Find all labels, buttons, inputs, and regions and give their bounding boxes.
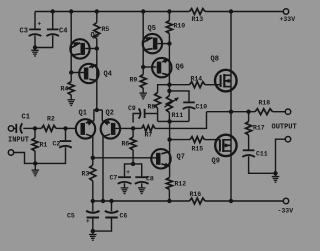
wire C6 top leg bbox=[111, 201, 113, 211]
wire Q5 line from rail bbox=[142, 12, 144, 75]
wire Q3 emitter diagonal bbox=[71, 43, 80, 48]
transistor Q7 bbox=[151, 149, 170, 168]
svg-text:C9: C9 bbox=[128, 105, 136, 112]
wire Q1 emitter up bbox=[94, 110, 102, 121]
label Q9 bbox=[212, 158, 220, 166]
resistor R1 bbox=[32, 128, 38, 163]
wire -33V rail left segment bbox=[93, 200, 190, 202]
svg-text:-33V: -33V bbox=[278, 208, 294, 215]
svg-text:C2: C2 bbox=[53, 141, 61, 148]
svg-text:R11: R11 bbox=[172, 112, 184, 119]
label Q4 bbox=[104, 71, 112, 79]
svg-text:R2: R2 bbox=[47, 116, 55, 123]
svg-text:C5: C5 bbox=[67, 213, 75, 220]
junction C5 C6 ground bbox=[91, 229, 95, 233]
label C5 bbox=[67, 213, 75, 220]
wire C8 to ground bbox=[141, 183, 143, 187]
svg-text:Q6: Q6 bbox=[176, 64, 184, 72]
wire Q6 collector diagonal bbox=[162, 73, 169, 75]
svg-text:C1: C1 bbox=[22, 114, 30, 122]
arrow Q2 emitter bbox=[103, 121, 110, 126]
wire C4 bottom leg bbox=[35, 35, 53, 47]
label C5 plus bbox=[86, 218, 90, 225]
wire C7 to ground bbox=[124, 183, 126, 187]
wire C7 C8 top bbox=[125, 164, 142, 177]
terminal input return bbox=[8, 150, 13, 155]
ground below C8 bbox=[138, 188, 146, 194]
svg-text:R3: R3 bbox=[82, 171, 90, 178]
wire R17 top leg bbox=[248, 112, 250, 122]
junction R17 node bbox=[246, 110, 250, 114]
wire C3 bottom leg bbox=[34, 35, 36, 47]
label C9 bbox=[128, 105, 136, 112]
junction Q4 base bbox=[69, 70, 73, 74]
label C11 bbox=[256, 151, 268, 158]
transistor Q9 mosfet bbox=[215, 135, 236, 156]
svg-text:C8: C8 bbox=[146, 176, 154, 183]
wire C5 bottom leg bbox=[92, 218, 94, 232]
label R5 bbox=[102, 26, 110, 33]
ground output bbox=[272, 173, 280, 182]
junction feedback node bbox=[131, 126, 135, 130]
svg-text:Q9: Q9 bbox=[212, 158, 220, 166]
resistor R11 trimmer bbox=[166, 96, 172, 113]
transistor Q1 bbox=[76, 119, 95, 138]
svg-text:Q2: Q2 bbox=[106, 110, 114, 118]
wire Q2 base bbox=[115, 127, 133, 129]
svg-text:Q7: Q7 bbox=[177, 154, 185, 162]
junction output node bbox=[229, 110, 233, 114]
wire R7 to output bbox=[155, 112, 207, 129]
label C7 bbox=[110, 175, 118, 182]
resistor R2 bbox=[42, 125, 57, 131]
svg-text:C11: C11 bbox=[256, 151, 268, 158]
arrow Q6 emitter bbox=[163, 59, 169, 63]
wire node to Q1 base bbox=[66, 127, 77, 129]
label C6 bbox=[120, 213, 128, 220]
resistor R8 bbox=[155, 93, 161, 109]
label R10 bbox=[174, 23, 186, 30]
wire R10 top leg bbox=[168, 12, 170, 21]
label C10 bbox=[196, 104, 208, 111]
wire Q3 emitter line from rail bbox=[70, 12, 72, 82]
wire Q6 emitter diagonal bbox=[162, 60, 169, 62]
svg-text:R13: R13 bbox=[192, 16, 204, 23]
svg-text:R4: R4 bbox=[61, 86, 69, 93]
label C8 bbox=[146, 176, 154, 183]
transistor Q5 bbox=[143, 34, 162, 53]
svg-text:C10: C10 bbox=[196, 104, 208, 111]
label OUTPUT bbox=[272, 124, 297, 132]
wire output return bbox=[276, 139, 286, 173]
transistor Q2 bbox=[101, 119, 120, 138]
svg-text:+: + bbox=[38, 21, 42, 28]
wire C3 top leg bbox=[34, 12, 36, 29]
arrow Q4 emitter bbox=[90, 64, 96, 68]
capacitor C4 bbox=[46, 29, 59, 36]
label R1 bbox=[40, 142, 48, 149]
label C3 plus bbox=[38, 21, 42, 28]
junction top rail Q5 line bbox=[141, 9, 145, 13]
label C7 plus bbox=[126, 169, 130, 176]
svg-text:R5: R5 bbox=[102, 26, 110, 33]
wire C10 bottom leg bbox=[188, 108, 190, 121]
svg-text:R12: R12 bbox=[175, 181, 187, 188]
junction bottom rail Q2 collector bbox=[101, 199, 105, 203]
wire Q4 base bbox=[71, 72, 84, 74]
transistor Q3 bbox=[70, 39, 89, 58]
svg-text:C6: C6 bbox=[120, 213, 128, 220]
junction Q1 collector R3 bbox=[91, 156, 95, 160]
ground below C3 bbox=[31, 48, 39, 57]
wire R17 to C11 bbox=[248, 135, 250, 150]
junction input ground bbox=[33, 161, 37, 165]
capacitor C5 bbox=[86, 211, 99, 218]
wire Q7 base long bbox=[93, 157, 157, 159]
label R16 bbox=[190, 191, 202, 198]
label C2 bbox=[53, 141, 61, 148]
junction Q5 base R10 bbox=[167, 41, 171, 45]
wire R12 to rail bbox=[168, 190, 170, 202]
resistor R13 bbox=[190, 9, 206, 15]
capacitor C11 bbox=[242, 150, 255, 157]
junction network bottom bbox=[167, 119, 171, 123]
resistor R12 bbox=[166, 178, 172, 190]
ground below R9 bbox=[139, 93, 147, 99]
svg-text:R18: R18 bbox=[259, 100, 271, 107]
resistor R7 bbox=[142, 125, 156, 131]
wire R4 to ground bbox=[70, 95, 72, 100]
wire +33V rail right segment bbox=[205, 11, 283, 13]
wire C11 bottom leg bbox=[249, 156, 276, 173]
svg-text:C4: C4 bbox=[59, 28, 67, 36]
svg-text:R6: R6 bbox=[122, 141, 130, 148]
wire node to R7 bbox=[133, 127, 141, 129]
resistor R4 bbox=[68, 82, 74, 96]
svg-text:Q5: Q5 bbox=[148, 25, 156, 33]
svg-text:+33V: +33V bbox=[280, 16, 296, 23]
terminal output return bbox=[285, 137, 290, 142]
wire C1 to node bbox=[23, 127, 35, 129]
terminal +33V bbox=[283, 9, 288, 14]
wire node to R2 bbox=[35, 127, 42, 129]
arrow R11 trimmer wiper bbox=[165, 97, 180, 107]
wire C10 branch bbox=[169, 91, 189, 102]
junction bottom rail C6 bbox=[109, 199, 113, 203]
label R3 bbox=[82, 171, 90, 178]
label Q8 bbox=[211, 56, 219, 64]
label Q6 bbox=[176, 64, 184, 72]
wire R9 to ground bbox=[142, 88, 144, 93]
label R17 bbox=[253, 125, 265, 132]
wire Q1 emitter diagonal bbox=[86, 121, 94, 123]
wire VAS to R15 node bbox=[169, 121, 171, 139]
junction output ground bbox=[273, 171, 277, 175]
label R2 bbox=[47, 116, 55, 123]
arrow Q5 emitter bbox=[145, 37, 151, 42]
label -33V bbox=[278, 208, 294, 215]
resistor R6 bbox=[130, 137, 136, 150]
wire Q4 collector diagonal bbox=[89, 79, 97, 80]
wire VAS line upper bbox=[168, 34, 170, 96]
svg-text:R17: R17 bbox=[253, 125, 265, 132]
label Q2 bbox=[106, 110, 114, 118]
wire Q5 base bbox=[158, 43, 170, 45]
junction C2 node bbox=[63, 126, 67, 130]
capacitor C9 bbox=[139, 108, 145, 118]
wire R15 left bbox=[170, 139, 190, 141]
svg-text:R10: R10 bbox=[174, 23, 186, 30]
label C1 bbox=[22, 114, 30, 122]
wire Q3 collector diagonal bbox=[71, 54, 80, 56]
wire R6 top leg bbox=[132, 128, 134, 137]
svg-text:Q1: Q1 bbox=[79, 110, 87, 118]
wire C9 to R8 leg bbox=[145, 113, 158, 115]
arrow Q7 emitter bbox=[164, 163, 170, 167]
wire Q4 emitter diagonal bbox=[89, 65, 97, 68]
ground below C5 C6 bbox=[89, 231, 97, 240]
wire R18 to terminal bbox=[273, 111, 286, 113]
capacitor C7 bbox=[118, 177, 132, 184]
label +33V bbox=[280, 16, 296, 23]
ground below C7 bbox=[121, 188, 129, 194]
wire output row bbox=[207, 111, 256, 113]
svg-text:C3: C3 bbox=[20, 28, 28, 36]
resistor R5 bbox=[94, 23, 100, 39]
wire VAS to Q7 bbox=[169, 140, 171, 178]
wire Q7 collector diagonal bbox=[161, 152, 169, 154]
label Q7 bbox=[177, 154, 185, 162]
label Q3 bbox=[91, 32, 99, 40]
label R11 bbox=[172, 112, 184, 119]
label Q1 bbox=[79, 110, 87, 118]
wire R8 bottom leg bbox=[157, 108, 159, 121]
junction R15 node bbox=[167, 137, 171, 141]
wire Q8 drain from rail bbox=[230, 12, 232, 112]
arrow Q3 emitter bbox=[73, 42, 79, 47]
svg-text:R1: R1 bbox=[40, 142, 48, 149]
wire R14 left bbox=[169, 84, 189, 86]
capacitor C6 bbox=[105, 211, 118, 218]
label R7 bbox=[145, 132, 153, 139]
junction top rail Q8 drain bbox=[229, 9, 233, 13]
wire R5 to Q4 line bbox=[96, 39, 98, 111]
junction C3 C4 ground node bbox=[33, 45, 37, 49]
svg-text:OUTPUT: OUTPUT bbox=[272, 124, 297, 132]
label R18 bbox=[259, 100, 271, 107]
svg-text:R7: R7 bbox=[145, 132, 153, 139]
capacitor C1 bbox=[16, 123, 22, 133]
wire R8 branch top bbox=[158, 85, 170, 93]
svg-text:R16: R16 bbox=[190, 191, 202, 198]
label R14 bbox=[191, 76, 203, 83]
label R6 bbox=[122, 141, 130, 148]
resistor R14 bbox=[190, 82, 206, 88]
wire R5 top leg bbox=[96, 12, 98, 23]
svg-text:INPUT: INPUT bbox=[8, 137, 29, 145]
resistor R16 bbox=[190, 198, 206, 204]
label R4 bbox=[61, 86, 69, 93]
wire C6 bottom leg bbox=[93, 218, 112, 232]
label R15 bbox=[192, 146, 204, 153]
resistor R9 bbox=[140, 75, 146, 89]
terminal output hot bbox=[285, 109, 290, 114]
terminal input hot bbox=[8, 126, 13, 131]
junction bottom rail C5 bbox=[91, 199, 95, 203]
svg-text:+: + bbox=[126, 169, 130, 176]
wire -33V rail right segment bbox=[205, 200, 283, 202]
terminal -33V bbox=[283, 198, 288, 203]
wire input to C1 bbox=[13, 127, 16, 129]
junction bottom rail R12 bbox=[167, 199, 171, 203]
junction R6 C7 C8 bbox=[131, 162, 135, 166]
label C3 bbox=[20, 28, 28, 36]
resistor R3 bbox=[90, 165, 96, 181]
wire Q7 emitter diagonal bbox=[161, 164, 169, 167]
wire R6 bottom leg bbox=[132, 150, 134, 164]
wire Q1 collector diagonal bbox=[86, 134, 93, 158]
wire Q6 base bbox=[143, 66, 156, 68]
resistor R10 bbox=[166, 21, 172, 34]
svg-text:Q4: Q4 bbox=[104, 71, 112, 79]
wire Q2 collector diagonal bbox=[103, 134, 110, 201]
wire network bottom bbox=[158, 120, 189, 122]
label R13 bbox=[192, 16, 204, 23]
wire R14 to gate bbox=[205, 84, 221, 86]
label Q5 bbox=[148, 25, 156, 33]
wire R2 to node bbox=[56, 127, 66, 129]
svg-text:C7: C7 bbox=[110, 175, 118, 182]
wire R15 to gate bbox=[205, 139, 220, 141]
label R12 bbox=[175, 181, 187, 188]
wire Q9 to bottom rail bbox=[230, 112, 232, 201]
resistor R18 bbox=[255, 109, 273, 115]
label R8 bbox=[148, 104, 156, 111]
wire R3 bottom leg bbox=[92, 181, 94, 201]
transistor Q6 bbox=[152, 58, 171, 77]
ground below R4 bbox=[67, 100, 75, 106]
junction VAS R14 bbox=[167, 83, 171, 87]
junction R1 node bbox=[33, 126, 37, 130]
svg-text:+: + bbox=[86, 218, 90, 225]
wire R3 top leg bbox=[92, 158, 94, 165]
capacitor C3 bbox=[29, 29, 42, 36]
wire Q5 emitter diagonal bbox=[143, 38, 152, 43]
wire Q2 emitter diagonal bbox=[102, 121, 110, 123]
junction VAS C10 bbox=[167, 89, 171, 93]
junction Q3 base R5 bbox=[95, 46, 99, 50]
wire VAS line lower bbox=[168, 113, 170, 122]
wire Q2 emitter up bbox=[101, 110, 103, 121]
svg-text:R14: R14 bbox=[191, 76, 203, 83]
junction Q6 base bbox=[141, 65, 145, 69]
wire C2 top leg bbox=[65, 128, 67, 140]
label C4 bbox=[59, 28, 67, 36]
wire input return bbox=[13, 153, 35, 164]
resistor R17 bbox=[246, 122, 252, 136]
wire C4 top leg bbox=[52, 12, 54, 29]
junction bottom rail Q9 bbox=[229, 199, 233, 203]
transistor Q8 mosfet bbox=[215, 70, 237, 92]
label INPUT bbox=[8, 137, 29, 145]
wire C2 bottom leg bbox=[35, 147, 65, 163]
capacitor C2 bbox=[59, 141, 72, 148]
label R9 bbox=[130, 77, 138, 84]
junction top rail Q3 line bbox=[69, 9, 73, 13]
resistor R15 bbox=[190, 137, 205, 143]
transistor Q4 bbox=[79, 64, 98, 83]
wire C9 left leg bbox=[133, 114, 140, 123]
svg-text:Q8: Q8 bbox=[211, 56, 219, 64]
capacitor C10 bbox=[183, 102, 196, 109]
wire +33V rail left segment bbox=[35, 11, 190, 13]
junction top rail R10 bbox=[167, 9, 171, 13]
capacitor C8 bbox=[135, 177, 149, 184]
wire Q5 collector diagonal bbox=[143, 49, 152, 51]
junction top rail C4 bbox=[51, 9, 55, 13]
junction emitter node bbox=[95, 108, 99, 112]
svg-text:R8: R8 bbox=[148, 104, 156, 111]
svg-text:R9: R9 bbox=[130, 77, 138, 84]
ground input bbox=[32, 163, 40, 175]
arrow Q1 emitter bbox=[87, 121, 94, 126]
junction top rail R5 bbox=[95, 9, 99, 13]
wire C5 top leg bbox=[92, 201, 94, 211]
wire Q3 base bbox=[85, 48, 97, 50]
svg-text:R15: R15 bbox=[192, 146, 204, 153]
